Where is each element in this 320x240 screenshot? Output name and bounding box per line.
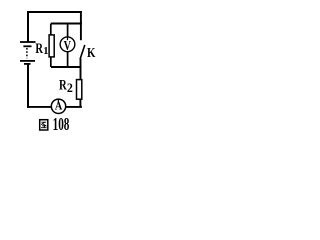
wire: parallel-group top connector (51, 23, 82, 25)
wire: bottom rail left segment (27, 106, 52, 108)
ammeter A: needle tick (57, 99, 59, 103)
svg-text:V: V (64, 38, 72, 53)
wire: R2 top lead up to switch blade (80, 59, 82, 80)
voltmeter V: circle (60, 37, 75, 52)
wire: R1 top lead (50, 24, 52, 36)
battery E: short plate 2 (24, 63, 31, 65)
wire: R1 bottom lead (50, 57, 52, 67)
wire: bottom rail right segment (66, 106, 82, 108)
wire: top rail (27, 11, 82, 13)
svg-text:1: 1 (43, 46, 48, 57)
wire: R2 bottom lead (79, 99, 81, 107)
battery E: long plate 2 (20, 60, 35, 62)
battery E: long plate 1 (20, 41, 36, 43)
svg-text:R: R (59, 78, 67, 94)
resistor R1: box (49, 35, 54, 57)
battery E: dotted cell continuation (26, 48, 28, 58)
svg-text:A: A (55, 101, 63, 113)
wire: voltmeter bottom lead (67, 51, 69, 67)
svg-text:2: 2 (67, 81, 73, 95)
wire: voltmeter top lead (67, 24, 69, 38)
caption: 图 glyph (drawn) (40, 120, 48, 130)
battery E: short plate 1 (23, 45, 31, 47)
voltmeter V: needle tick (67, 37, 69, 40)
wire: right rail (top rail down to switch contact) (80, 11, 82, 40)
ammeter A: circle (51, 99, 65, 113)
resistor R2: box (77, 80, 82, 100)
wire: left rail upper (battery top lead) (27, 11, 29, 42)
switch K: blade (open) (80, 45, 85, 59)
svg-text:R: R (35, 41, 43, 57)
svg-text:108: 108 (53, 114, 70, 134)
wire: parallel-group bottom connector (51, 66, 82, 68)
svg-text:K: K (87, 45, 96, 60)
wire: left rail lower (27, 65, 29, 108)
